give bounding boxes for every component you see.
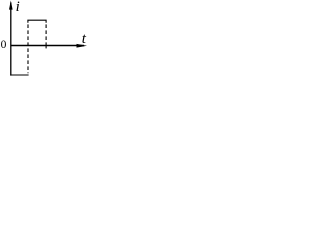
background bbox=[0, 0, 89, 83]
dashed vertical at t1 (x=28) bbox=[27, 24, 29, 73]
svg-text:i: i bbox=[16, 0, 20, 15]
svg-text:0: 0 bbox=[1, 39, 7, 51]
dashed vertical at t2 (x=46) bbox=[45, 24, 47, 46]
x-axis arrowhead bbox=[77, 44, 88, 48]
y-axis (i axis) bbox=[10, 3, 12, 76]
y-axis arrowhead bbox=[9, 1, 13, 10]
pulse top (solid with corner stubs) bbox=[28, 20, 46, 23]
x-axis (t axis) bbox=[11, 45, 84, 47]
negative pulse bottom line bbox=[10, 74, 28, 76]
short dash stub below axis at t2 bbox=[45, 46, 47, 49]
